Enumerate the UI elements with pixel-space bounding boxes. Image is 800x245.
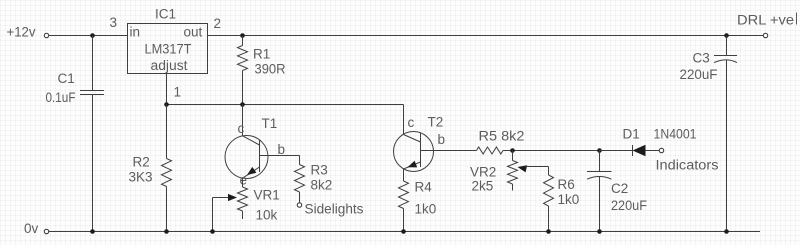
svg-text:VR1: VR1	[254, 188, 280, 203]
svg-text:R1: R1	[253, 47, 270, 62]
wire VR1 wiper to 0v	[212, 198, 214, 232]
svg-text:C1: C1	[58, 71, 75, 86]
svg-text:10k: 10k	[256, 208, 278, 223]
svg-text:1: 1	[174, 85, 182, 100]
resistor R1 390R	[238, 46, 286, 77]
svg-text:LM317T: LM317T	[145, 42, 192, 57]
svg-text:0v: 0v	[24, 221, 39, 236]
svg-text:R4: R4	[415, 180, 433, 195]
svg-text:in: in	[130, 25, 141, 40]
svg-text:T1: T1	[262, 116, 278, 131]
svg-text:R2: R2	[133, 155, 150, 170]
svg-text:c: c	[238, 121, 245, 136]
svg-text:out: out	[184, 25, 203, 40]
wire R6 bottom lead	[548, 206, 550, 232]
node C2 top	[597, 148, 602, 153]
wire T1 collector lead	[242, 105, 244, 136]
svg-text:220uF: 220uF	[611, 198, 647, 213]
wire C2 node to D1	[600, 150, 633, 152]
wire C1 top lead	[92, 36, 94, 91]
svg-text:adjust: adjust	[151, 58, 188, 73]
capacitor C1 0.1uF	[46, 71, 105, 105]
terminal 0v	[24, 221, 49, 236]
node R6 bottom	[546, 229, 551, 234]
node adjust/R2	[164, 102, 169, 107]
potentiometer VR2 2k5	[470, 161, 518, 194]
wire R3 bottom lead	[299, 192, 301, 203]
wire R1 bottom lead	[242, 71, 244, 105]
VR2 wiper arrow	[518, 165, 549, 172]
capacitor C3 220uF	[680, 51, 738, 83]
svg-text:C3: C3	[693, 51, 710, 66]
svg-text:220uF: 220uF	[680, 67, 718, 82]
wire R2 bottom lead	[166, 187, 168, 232]
svg-text:1k0: 1k0	[558, 192, 580, 207]
svg-text:b: b	[438, 132, 446, 147]
pin 1 label IC1 adjust	[174, 85, 182, 100]
capacitor C2 220uF	[587, 172, 647, 214]
svg-text:c: c	[408, 115, 415, 130]
svg-text:+12v: +12v	[7, 25, 36, 40]
terminal Indicators	[656, 148, 719, 172]
wire adjust bus	[167, 104, 404, 106]
VR1 wiper arrow	[213, 194, 238, 201]
wire VR2 top lead	[512, 151, 514, 161]
node VR1 wiper bottom	[210, 229, 215, 234]
pin 2 label IC1 out	[214, 16, 222, 31]
terminal DRL +ve	[737, 12, 797, 38]
wire T1 base to R3	[260, 156, 300, 165]
wire C2 bottom lead	[599, 176, 601, 231]
wire R4 bottom lead	[403, 209, 405, 232]
svg-text:390R: 390R	[255, 62, 286, 77]
terminal +12v	[7, 25, 49, 40]
potentiometer VR1 10k	[238, 187, 280, 223]
wire R1 top lead	[242, 36, 244, 46]
node C2 bottom	[597, 229, 602, 234]
resistor R2 3K3	[129, 155, 172, 187]
svg-text:IC1: IC1	[155, 7, 176, 22]
svg-text:T2: T2	[428, 115, 444, 130]
svg-text:R3: R3	[311, 163, 328, 178]
node C3 top	[724, 33, 729, 38]
resistor R5 8k2	[477, 129, 525, 155]
node R1 top	[240, 33, 245, 38]
resistor R3 8k2	[295, 163, 333, 193]
pin 3 label IC1 in	[110, 15, 118, 30]
svg-text:1N4001: 1N4001	[654, 127, 697, 142]
svg-text:b: b	[278, 142, 286, 157]
wire R5 to C2 node	[503, 150, 600, 152]
node R1/T1 collector	[240, 102, 245, 107]
wire C2 top lead	[599, 151, 601, 172]
transistor T2	[394, 115, 446, 172]
svg-text:Indicators: Indicators	[656, 158, 719, 173]
wire +12v to IC1 in	[49, 35, 128, 37]
svg-text:DRL +ve: DRL +ve	[737, 12, 794, 28]
svg-text:2: 2	[214, 16, 222, 31]
svg-text:e: e	[240, 173, 248, 188]
node R5/VR2	[510, 148, 515, 153]
wire T1 emitter lead	[242, 178, 244, 187]
node R2 bottom	[164, 229, 169, 234]
svg-text:3K3: 3K3	[129, 170, 153, 185]
svg-text:R6: R6	[558, 177, 575, 192]
svg-text:D1: D1	[623, 127, 640, 142]
wire R2 top lead	[166, 105, 168, 159]
node R4 bottom	[401, 229, 406, 234]
wire 0v rail	[49, 231, 760, 233]
resistor R6 1k0	[544, 175, 580, 207]
svg-text:3: 3	[110, 15, 118, 30]
terminal Sidelights	[297, 202, 363, 217]
wire IC1 out to DRL rail	[208, 35, 764, 37]
svg-text:Sidelights: Sidelights	[305, 202, 364, 217]
wire C3 bottom lead	[726, 60, 728, 232]
wire D1 to Indicators	[646, 150, 660, 152]
svg-text:R5 8k2: R5 8k2	[479, 129, 525, 144]
node C1 bottom	[90, 229, 95, 234]
wire T2 base to R5	[421, 150, 477, 152]
wire T2 emitter lead	[403, 169, 405, 181]
svg-text:VR2: VR2	[470, 165, 496, 180]
wire C3 top lead	[726, 36, 728, 56]
svg-text:8k2: 8k2	[311, 178, 333, 193]
diode D1 1N4001	[623, 127, 697, 157]
svg-text:0.1uF: 0.1uF	[46, 90, 76, 105]
wire VR2 wiper to R6	[548, 167, 550, 176]
node C3 bottom	[724, 229, 729, 234]
transistor T1	[225, 116, 285, 188]
regulator IC1 LM317T box	[128, 7, 208, 74]
svg-text:2k5: 2k5	[472, 179, 494, 194]
wire bus down to T2 collector	[403, 105, 405, 135]
wire C1 bottom lead	[92, 95, 94, 232]
node C1 top	[90, 33, 95, 38]
resistor R4 1k0	[399, 180, 437, 217]
svg-text:1k0: 1k0	[415, 202, 437, 217]
wire IC1 adjust lead	[166, 74, 168, 105]
svg-text:C2: C2	[611, 181, 628, 196]
